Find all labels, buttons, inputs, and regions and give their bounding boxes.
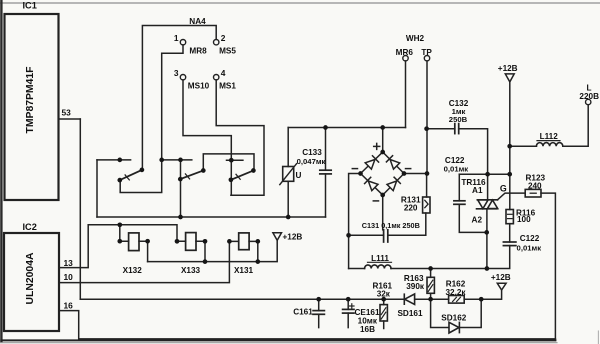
wire: C131 left lead	[349, 234, 384, 236]
node: R163 top junction	[428, 266, 433, 271]
node: X131 right pin	[255, 239, 260, 244]
svg-text:IC2: IC2	[23, 222, 37, 232]
svg-text:WH2: WH2	[406, 34, 425, 43]
svg-text:16: 16	[64, 301, 74, 311]
svg-text:0,01мк: 0,01мк	[517, 243, 542, 252]
wire: L112 right lead to terminal L	[563, 105, 588, 147]
wire: C132 right lead down to A1 node	[459, 129, 488, 175]
capacitor CE161 top lead	[347, 299, 349, 309]
wire: NA4 pin 4 MS1 loop to switch SA3 pivot	[216, 80, 264, 195]
wire: X133 right pin drop	[196, 241, 205, 261]
wire: bridge right vertex to TP node	[404, 173, 427, 175]
wire: C131 right lead up to R131	[388, 213, 426, 235]
IC1 U1 box	[5, 14, 59, 200]
node: rail MS10 column	[178, 215, 183, 220]
wire: SA3 fixed contact stub	[227, 159, 243, 161]
wire: IC1 pin 53 stub	[59, 118, 81, 120]
svg-text:TMP87PM41F: TMP87PM41F	[25, 67, 36, 134]
capacitor C122b plates	[503, 242, 516, 246]
svg-text:16В: 16В	[360, 325, 375, 334]
wire: C122b bottom lead to lower node line	[487, 246, 510, 269]
resistor R116 body	[506, 210, 513, 224]
capacitor C122a plates	[454, 201, 465, 205]
wire: C122a top lead	[458, 174, 460, 201]
resistor R163 body	[427, 277, 434, 293]
node: bridge right vertex	[402, 171, 407, 176]
wire: IC2 pin 10 to relay coil X131	[59, 241, 239, 282]
svg-text:MS5: MS5	[219, 47, 236, 56]
wire: bottom neutral rail	[1, 339, 555, 341]
capacitor C161 top lead	[318, 299, 320, 310]
capacitor C131 plates	[384, 230, 388, 242]
bridge diode D4 lower-right	[387, 177, 400, 190]
node: SA2 contact dot	[201, 168, 206, 173]
wire: lower signal line y299	[80, 298, 404, 300]
node: bridge bottom vertex	[380, 193, 385, 198]
wire: C131 node down to L111 line	[348, 235, 350, 268]
wire: R116 bottom lead to C122b	[509, 224, 511, 242]
NA4 pin 2 circle	[214, 40, 219, 45]
node: SA1 pivot dot	[117, 178, 122, 183]
svg-text:2: 2	[221, 33, 226, 43]
node: coil rail X133 tap	[203, 259, 208, 264]
svg-text:ULN2004A: ULN2004A	[25, 252, 36, 304]
node: SA2 pivot dot	[178, 177, 183, 182]
IC2 U2 box	[4, 233, 59, 331]
wire: IC2 pin 13 to relay coils X132 X133	[59, 225, 186, 268]
svg-text:CE161: CE161	[355, 308, 380, 317]
svg-text:C131 0,1мк 250В: C131 0,1мк 250В	[362, 221, 420, 230]
wire: MR6 line y127.5	[288, 127, 405, 129]
node: A2 C122a junction	[484, 230, 489, 235]
bridge diode D1 upper-left	[365, 156, 378, 169]
capacitor C133 plates	[320, 170, 331, 174]
bridge ac mark left	[352, 168, 357, 170]
svg-text:MS10: MS10	[188, 82, 210, 91]
wire: SD162 cathode up to R162 node	[459, 299, 481, 327]
wire: C133 top lead to MR6 line	[325, 128, 327, 171]
resistor R123 body	[525, 189, 541, 197]
wire: relay coils common +12V rail	[148, 240, 278, 261]
node: MR8 junction	[159, 158, 164, 163]
wire: X132 right pin to +12V rail	[139, 241, 148, 261]
wire: snubber node line y174.2	[459, 173, 509, 175]
node: SA3 pivot dot	[229, 177, 234, 182]
svg-text:MS1: MS1	[219, 82, 236, 91]
svg-text:3: 3	[174, 68, 179, 78]
wire: C161 bottom stub	[318, 314, 320, 327]
svg-text:MR8: MR8	[189, 47, 207, 56]
wire: R163 top lead	[430, 269, 432, 278]
NA4 pin 1 circle	[180, 40, 185, 45]
wire: TP pin drop to bridge node	[426, 61, 428, 174]
node: MR6 line bridge tap	[380, 125, 385, 130]
power symbol +12B lower	[497, 283, 506, 290]
switch SA3 arm	[231, 171, 254, 180]
svg-text:C122: C122	[520, 234, 540, 243]
bridge plus mark	[374, 143, 380, 149]
wire: MR6 pin drop	[405, 61, 407, 128]
svg-text:220В: 220В	[579, 92, 599, 101]
wire: triac A1 lead	[487, 174, 489, 200]
diode SD161	[404, 294, 414, 304]
WH2 pin MR6 circle	[403, 56, 408, 61]
wire: SA2 upper contact riser and bridge to SA3 contact	[203, 154, 254, 171]
svg-text:240: 240	[528, 181, 542, 190]
scan top border	[0, 2, 600, 4]
scan right edge artifact	[597, 331, 599, 344]
svg-text:A1: A1	[472, 186, 483, 195]
capacitor CE161 plates polarized	[343, 309, 354, 313]
wire: SD161 cathode to R162	[415, 298, 449, 300]
svg-text:+12B: +12B	[491, 273, 511, 282]
bridge minus mark bottom	[373, 200, 378, 202]
capacitor C161 plates	[313, 311, 324, 315]
node: pin13 line X132 tap	[117, 222, 122, 227]
svg-text:+12B: +12B	[283, 233, 303, 242]
node: MR6 line C133 tap	[323, 125, 328, 130]
wire: bridge bottom to C131 left plate	[382, 195, 384, 230]
node: A1 line junction	[485, 172, 490, 177]
wire: triac A2 lead down to lower node	[486, 209, 488, 269]
node: SA3 contact dot	[251, 168, 256, 173]
svg-text:SD161: SD161	[397, 309, 422, 318]
wire: X132 left pin riser	[120, 225, 129, 241]
svg-text:G: G	[500, 183, 507, 193]
resistor R161 body	[380, 305, 387, 321]
node: A2 lower junction	[485, 266, 490, 271]
svg-text:U: U	[296, 171, 302, 180]
svg-text:32,2к: 32,2к	[445, 288, 466, 297]
svg-text:L111: L111	[371, 254, 389, 263]
node: X132 right pin	[145, 239, 150, 244]
node: X131 left pin	[227, 239, 232, 244]
terminal L circle	[586, 99, 591, 104]
wire: NA4 top link from MS5 pin 2 down to switch SA1 contact	[142, 26, 216, 168]
wire: C132 left lead	[427, 128, 455, 130]
node: R161 tap	[381, 297, 386, 302]
NA4 pin 3 circle	[180, 75, 185, 80]
relay coil X131	[239, 233, 249, 250]
node: C161 tap	[316, 297, 321, 302]
svg-text:390к: 390к	[406, 282, 425, 291]
node: SA3 stub dot	[229, 158, 234, 163]
svg-text:X131: X131	[234, 266, 254, 275]
node: bridge left vertex	[358, 171, 363, 176]
svg-text:250В: 250В	[449, 115, 468, 124]
diode bridge arm upper left	[361, 152, 383, 174]
wire: NA4 pin 3 MS10 down to switch SA3 column	[183, 80, 231, 195]
wire: triac gate to R123	[498, 193, 526, 200]
wire: L111 left lead	[349, 268, 365, 270]
wire: C133 bottom lead from rail	[325, 174, 327, 217]
wire: bridge top to MR6 line	[382, 128, 384, 153]
svg-text:A2: A2	[472, 215, 483, 224]
node: CE161 tap	[346, 297, 351, 302]
node: R163 SD162 junction	[428, 297, 433, 302]
bridge ac mark right	[406, 168, 411, 170]
wire: R131 top lead from bridge node	[426, 174, 428, 198]
bridge diode D2 upper-right	[386, 156, 399, 169]
node: X132 left pin	[117, 239, 122, 244]
node: coil rail X131 tap	[255, 259, 260, 264]
diode bridge arm lower left	[361, 174, 383, 196]
node: L112 tap	[507, 144, 512, 149]
svg-text:4: 4	[221, 68, 226, 78]
diode bridge arm upper right	[383, 152, 404, 174]
wire: IC2 pin 16 down to bottom rail	[59, 311, 555, 339]
wire: L112 left lead	[510, 145, 537, 147]
wire: L111 right lead to R163 node	[391, 268, 487, 270]
capacitor C132 plates	[455, 124, 459, 134]
bridge diode D3 lower-left	[365, 177, 378, 190]
resistor R131 body	[423, 197, 430, 213]
svg-text:0,047мк: 0,047мк	[297, 157, 326, 166]
NA4 pin 4 circle	[214, 75, 219, 80]
svg-text:220: 220	[404, 204, 418, 213]
wire: bridge left vertex to C131 left node	[349, 174, 361, 236]
svg-text:C133: C133	[302, 148, 322, 157]
CE161 plus mark	[350, 304, 354, 308]
node: rail varistor U	[286, 215, 291, 220]
node: X133 right pin	[203, 239, 208, 244]
svg-text:1: 1	[174, 33, 179, 43]
svg-text:53: 53	[62, 108, 72, 118]
relay coil X132	[129, 233, 139, 251]
svg-text:0,01мк: 0,01мк	[444, 164, 469, 173]
scan left border	[0, 0, 2, 342]
inductor L112 coil	[536, 143, 562, 147]
wire: NA4 pin 1 MR8 down to switch node	[120, 45, 183, 193]
node: SA1 stub dot	[117, 158, 122, 163]
resistor R162 body	[449, 296, 465, 304]
node: X133 left pin	[175, 239, 180, 244]
svg-text:100: 100	[517, 215, 531, 224]
wire: X131 right pin drop	[249, 241, 258, 261]
node: SA2 stub dot	[178, 158, 183, 163]
diode bridge arm lower right	[383, 174, 404, 196]
wire: R161 bottom stub	[383, 321, 385, 329]
svg-text:L112: L112	[540, 132, 559, 141]
wire: control rail y217	[97, 216, 326, 218]
wire: vertical from pin 53 down to lower line	[79, 119, 81, 299]
L112 label underline	[537, 140, 560, 142]
diode SD162	[449, 322, 459, 333]
power symbol +12B top	[505, 74, 514, 82]
wire: SA2 pivot column MS10 stub to rail	[180, 160, 182, 217]
svg-text:+12B: +12B	[498, 64, 518, 73]
svg-text:C161: C161	[293, 308, 313, 317]
wire: +12B stem down through G node to R116	[509, 82, 511, 210]
wire: varistor U bottom lead to rail	[287, 181, 289, 217]
wire: R161 top lead	[383, 299, 385, 304]
varistor U body	[280, 164, 297, 185]
wire: SD162 branch left leg	[431, 299, 449, 327]
inductor L111 coil	[365, 265, 391, 269]
node: snubber right junction	[507, 172, 512, 177]
svg-text:13: 13	[64, 258, 74, 268]
power symbol +12B at coils	[273, 233, 282, 241]
svg-text:X133: X133	[181, 266, 201, 275]
svg-text:X132: X132	[123, 266, 143, 275]
node: bridge top vertex	[380, 150, 385, 155]
wire: R163 bottom lead	[430, 293, 432, 299]
node: TP line C132 tap	[424, 126, 429, 131]
node: TP bridge R131 junction	[425, 171, 430, 176]
wire: CE161 bottom stub	[347, 313, 349, 328]
wire: R123 right lead down to bottom rail	[541, 193, 555, 340]
wire: MR8 node stub to SA2 fixed contact	[162, 159, 192, 161]
scan bottom border	[0, 342, 557, 344]
wire: SA1 stub riser down to control rail	[96, 160, 98, 217]
wire: C122a bottom lead to A2 node	[459, 204, 486, 232]
wire: switch SA1 fixed contact stub	[97, 159, 131, 161]
switch SA1 arm	[120, 170, 142, 180]
wire: R162 right lead to +12B corner	[464, 290, 501, 299]
triac TR116 symbol	[477, 200, 498, 209]
WH2 pin TP circle	[424, 56, 429, 61]
L111 label underline	[368, 261, 392, 263]
node: R162 SD162 junction	[479, 297, 484, 302]
svg-text:SD162: SD162	[441, 314, 466, 323]
svg-text:10: 10	[64, 272, 74, 282]
svg-text:IC1: IC1	[23, 1, 37, 11]
switch SA2 arm	[180, 171, 203, 180]
node: SA1 contact dot	[140, 168, 145, 173]
wire: varistor U top lead from MR6 line corner	[287, 128, 289, 167]
relay coil X133	[186, 233, 196, 251]
node: C131 left junction	[346, 233, 351, 238]
